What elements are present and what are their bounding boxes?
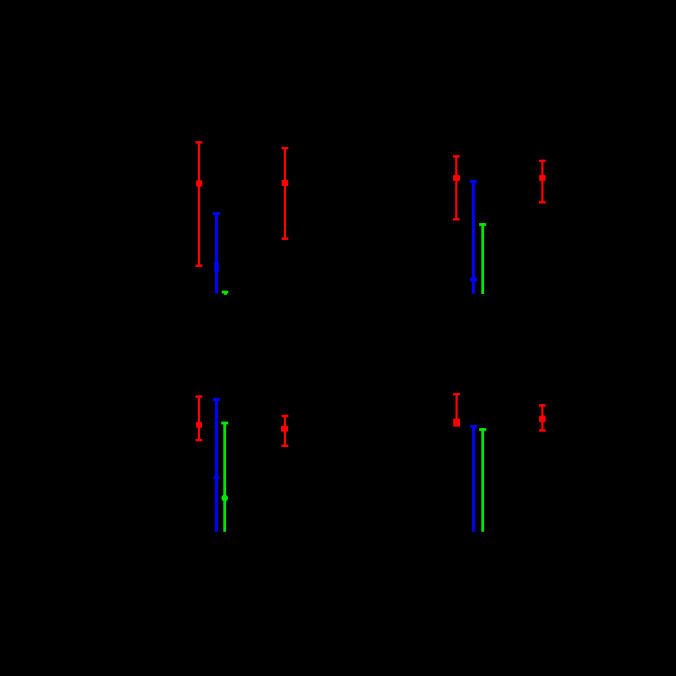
- red errorbar R1 (top-left panel, x=199): [196, 141, 203, 267]
- red errorbar R8 (bottom-right panel, x=542.4): [539, 404, 546, 431]
- red errorbar R3 (top-right panel, x=456.3): [453, 155, 460, 220]
- blue errorbar B2 (top-right panel, x=473.4, clipped at bottom): [470, 180, 477, 294]
- green errorbar G4 (bottom-right panel, x=482.7, clipped at bottom): [479, 428, 486, 532]
- green errorbar G1 (top-left panel, only top cap + marker sliver visible): [222, 291, 229, 295]
- red errorbar R6 (bottom-left panel, x=285): [281, 415, 288, 447]
- red errorbar R4 (top-right panel, x=542.4): [539, 160, 546, 204]
- blue errorbar B1 (top-left panel, x=216.5, clipped at bottom): [213, 212, 220, 293]
- blue errorbar B4 (bottom-right panel, x=473.6, clipped at bottom): [470, 425, 477, 532]
- red errorbar R2 (top-left panel, x=285): [282, 147, 289, 240]
- red errorbar R5 (bottom-left panel, x=199): [196, 395, 203, 441]
- red errorbar R7 (bottom-right panel, x=456.6, marker overlaps bottom cap): [453, 393, 460, 427]
- blue errorbar B3 (bottom-left panel, x=216.4, clipped at bottom): [213, 398, 220, 532]
- green errorbar G3 (bottom-left panel, x=224.7, clipped at bottom): [221, 422, 228, 532]
- green errorbar G2 (top-right panel, x=482.7, clipped at bottom): [479, 223, 486, 294]
